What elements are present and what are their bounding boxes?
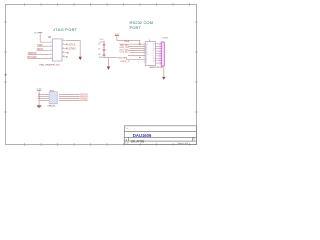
capacitor C6: [103, 44, 106, 45]
svg-text:RPACK4: RPACK4: [48, 105, 57, 108]
svg-text:Sheet 2 of 9: Sheet 2 of 9: [178, 142, 190, 145]
svg-text:GND: GND: [99, 57, 104, 59]
junction dots header: [39, 94, 40, 99]
U6 left pin stubs: [49, 42, 53, 58]
junction dots cap stack: [104, 42, 105, 58]
svg-text:13: 13: [153, 48, 155, 50]
wire row 52.7: [130, 52, 146, 54]
wire stepped row to U5: [124, 58, 145, 60]
wire row 44.2: [120, 43, 146, 45]
svg-text:C8: C8: [98, 54, 100, 56]
zone tick marks right edge: [195, 22, 198, 112]
svg-text:PORT: PORT: [130, 25, 142, 30]
no-connect mark pin 8: [67, 52, 68, 53]
zone letter left edge: [5, 74, 7, 76]
power symbol VCC (RS232): [115, 34, 120, 36]
wire row 96.4 right: [59, 95, 80, 97]
power symbol VCC (JTAG): [34, 32, 42, 34]
svg-text:10: 10: [63, 55, 65, 57]
no-connect mark pin 10: [66, 56, 67, 57]
wire row 50.6: [128, 50, 145, 52]
sheet border frame: [6, 5, 197, 145]
capacitor C7: [103, 49, 106, 50]
svg-text:16: 16: [153, 58, 155, 60]
U6 right pin stubs: [62, 41, 66, 57]
wire row 94.4: [39, 93, 49, 95]
wire pin 10 no-connect: [66, 56, 67, 58]
capacitor C8: [103, 54, 106, 55]
svg-text:Date:: Date:: [125, 142, 130, 145]
wire row 48.5: [130, 48, 146, 50]
svg-text:5: 5: [50, 49, 51, 51]
U6 left pin numbers: [50, 41, 51, 59]
U5 left pin stubs: [144, 44, 146, 62]
svg-text:COM1: COM1: [162, 37, 169, 39]
connector P1 body (DB9): [161, 42, 164, 66]
wire row 55.4: [128, 54, 145, 56]
svg-text:TRST#0: TRST#0: [27, 52, 37, 55]
junction dot VCC row: [139, 44, 140, 45]
svg-text:1: 1: [159, 43, 160, 45]
svg-text:C6: C6: [98, 44, 100, 46]
svg-text:Title: Title: [125, 127, 128, 130]
wire TRST: [28, 53, 49, 55]
wire row 46.4: [128, 45, 145, 47]
wire RTCK: [28, 57, 49, 59]
svg-text:13: 13: [146, 43, 148, 45]
svg-text:PLDTCK: PLDTCK: [66, 44, 76, 47]
wire row 98.4 right: [59, 97, 80, 99]
svg-text:TDI0: TDI0: [37, 44, 43, 47]
svg-text:TDO0: TDO0: [37, 48, 44, 51]
U5/P1 interconnect pin stubs: [155, 44, 161, 63]
P1 pin dots: [161, 43, 162, 63]
ground (JTAG): [79, 57, 82, 60]
svg-text:1: 1: [194, 140, 195, 142]
svg-text:11: 11: [146, 47, 148, 49]
svg-text:8: 8: [159, 55, 160, 57]
size cell divider: [127, 137, 129, 141]
svg-text:10: 10: [146, 51, 148, 53]
wire row 96.4: [39, 95, 49, 97]
wire VCC to U5: [117, 36, 140, 45]
wire VCC to U6 pin 1: [40, 32, 48, 42]
svg-text:JTAG_HEADER_5X2: JTAG_HEADER_5X2: [39, 64, 61, 67]
wire pin 8 no-connect: [66, 52, 68, 54]
svg-text:VCC: VCC: [34, 32, 39, 34]
P1 pin numbers: [159, 43, 160, 64]
wire TMS: [66, 48, 67, 50]
svg-text:2: 2: [63, 39, 64, 41]
svg-text:C7: C7: [98, 49, 100, 51]
zone tick marks bottom edge: [25, 143, 190, 146]
svg-text:16: 16: [149, 40, 151, 42]
U5 pin numbers left column: [146, 43, 148, 63]
connector U6 body (JTAG header): [52, 39, 62, 61]
wire row 94.4 right: [59, 93, 80, 95]
svg-text:EN232_N: EN232_N: [121, 61, 130, 63]
power symbol +3.3V (lower left): [36, 89, 42, 91]
svg-text:14: 14: [153, 44, 155, 46]
zone tick marks left edge: [4, 22, 7, 112]
svg-text:MAX3232CSE: MAX3232CSE: [150, 66, 164, 69]
resistor network RN1 body: [49, 92, 57, 104]
wire P1 to ground: [163, 66, 165, 77]
ground (cap stack): [107, 66, 110, 70]
svg-text:RTCK#0: RTCK#0: [27, 56, 37, 59]
wire pin2 to ground: [66, 41, 80, 57]
svg-text:RXD485: RXD485: [80, 100, 89, 102]
svg-text:JTAG PORT: JTAG PORT: [53, 27, 78, 32]
svg-text:30.JY06: 30.JY06: [131, 140, 144, 144]
zone tick marks top edge: [25, 3, 190, 6]
wire TCK: [66, 44, 67, 46]
ground (lower left): [37, 106, 41, 107]
wire cap stack vertical: [103, 41, 105, 58]
title block row line 3: [124, 140, 196, 142]
wire TDO: [37, 49, 49, 51]
wire TDI: [37, 45, 49, 47]
wire row 100.4 right: [59, 99, 80, 101]
U5 pin numbers right column: [153, 44, 155, 63]
RN1 dot pattern: [50, 93, 57, 104]
IC U5 body (MAX3232): [145, 42, 155, 66]
svg-text:DAU1606: DAU1606: [133, 133, 152, 138]
wire row 98.4: [39, 97, 49, 99]
svg-text:U5 A: U5 A: [124, 40, 129, 43]
svg-text:8: 8: [63, 51, 64, 53]
wire GND row: [109, 57, 118, 59]
ground (P1): [162, 77, 165, 80]
rev cell divider: [192, 137, 194, 141]
svg-text:PLDTMS: PLDTMS: [66, 48, 76, 51]
title block row line 2: [124, 136, 196, 138]
title block row line 1: [124, 131, 196, 133]
svg-text:6: 6: [63, 47, 64, 49]
junction dot row 57.5: [139, 57, 140, 58]
wire row 100.4: [39, 99, 49, 101]
title block outline: [124, 126, 196, 145]
svg-text:4: 4: [63, 43, 64, 45]
svg-text:CTS_232: CTS_232: [120, 51, 130, 53]
svg-text:U6: U6: [48, 37, 52, 39]
U6 right pin numbers: [63, 39, 65, 57]
svg-text:15: 15: [153, 60, 155, 62]
wire cap bottom to ground: [104, 58, 109, 67]
wire header vertical: [38, 90, 40, 105]
svg-text:12: 12: [146, 53, 148, 55]
